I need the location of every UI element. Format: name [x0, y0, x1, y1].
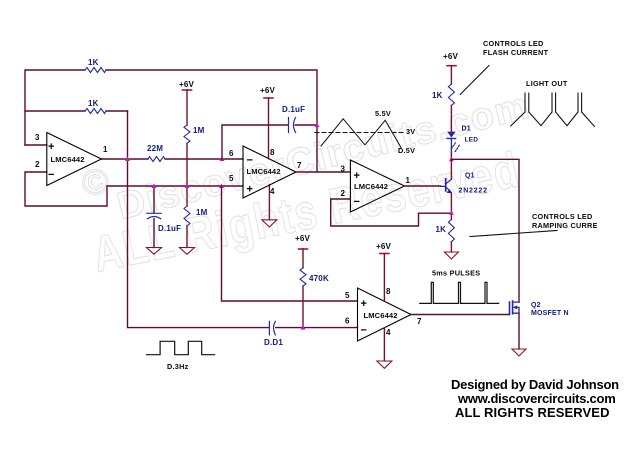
svg-text:4: 4	[270, 187, 275, 196]
resistor R6 1K (LED flash current)	[448, 84, 454, 106]
svg-text:Q1: Q1	[465, 173, 475, 180]
wire 3V ref branch down to U4 pin 5	[222, 186, 358, 301]
wire U2 pin 4 to ground	[268, 185, 270, 220]
svg-text:6: 6	[345, 317, 350, 326]
svg-text:1K: 1K	[88, 99, 99, 108]
wire U2 output to U3 pin 3	[296, 171, 350, 173]
svg-text:LMC6442: LMC6442	[364, 311, 398, 320]
leader line flash	[460, 66, 489, 95]
resistor R2 1K (positive feedback)	[85, 109, 106, 114]
wire C2 integrator feedback	[222, 125, 317, 159]
wire Q1 emitter down to R7	[450, 194, 452, 252]
resistor R7 1K (LED ramping current)	[448, 219, 454, 241]
svg-text:LIGHT OUT: LIGHT OUT	[526, 79, 568, 88]
svg-text:3: 3	[341, 165, 346, 174]
junction ref line / U4 branch	[219, 184, 224, 189]
LED D1	[447, 132, 456, 138]
wire Q2 source to ground	[518, 313, 520, 349]
wire U1 output vertical down to C3 line (0.3Hz square node)	[128, 111, 270, 328]
ground for R5	[180, 248, 195, 255]
svg-text:−: −	[361, 325, 367, 337]
svg-text:1: 1	[103, 145, 108, 154]
ground U2 pin 4	[262, 220, 277, 227]
svg-text:1K: 1K	[432, 91, 443, 100]
wire Q1 collector	[450, 159, 452, 179]
svg-text:©: ©	[78, 158, 116, 204]
5ms pulses icon	[420, 282, 499, 303]
junction U1 output node	[125, 157, 130, 162]
svg-text:5: 5	[229, 174, 234, 183]
wire from node A to R2 and down to U1 output node	[25, 110, 128, 112]
svg-text:LMC6442: LMC6442	[51, 155, 85, 164]
svg-text:D.1uF: D.1uF	[282, 105, 305, 114]
ground for Q2 source	[512, 349, 526, 356]
wire 3V reference line to U2 pin 5	[107, 185, 243, 187]
svg-text:−: −	[48, 169, 54, 181]
svg-text:1K: 1K	[88, 58, 99, 67]
svg-text:+: +	[354, 170, 360, 182]
wire U3 pin 2 feedback from Q1 emitter	[331, 199, 452, 226]
svg-text:7: 7	[297, 161, 302, 170]
op-amp U1 LMC6442	[47, 133, 102, 186]
svg-text:+: +	[247, 184, 253, 196]
resistor R3 22M	[148, 157, 165, 162]
svg-text:CONTROLS LED: CONTROLS LED	[483, 39, 544, 48]
junction R8 / C3 / U4 pin6	[301, 325, 306, 330]
capacitor C2 0.1uF	[289, 118, 296, 133]
leader line ramping	[470, 231, 557, 237]
wire C1 leads	[153, 186, 155, 248]
svg-text:+6V: +6V	[179, 80, 195, 89]
wire U1 pin 2 feedback to 3V reference line	[25, 172, 107, 206]
svg-text:2: 2	[35, 160, 40, 169]
svg-text:LED: LED	[465, 137, 479, 144]
ground U4 pin 4	[377, 361, 392, 368]
capacitor C3 0.01	[269, 321, 275, 335]
svg-text:LMC6442: LMC6442	[247, 167, 281, 176]
resistor R1 1K (top feedback)	[85, 68, 106, 73]
svg-text:1K: 1K	[436, 225, 447, 234]
svg-text:+: +	[48, 141, 54, 153]
svg-text:RAMPING CURRE: RAMPING CURRE	[532, 221, 598, 230]
wire U4 output to Q2 gate	[411, 314, 510, 316]
svg-text:8: 8	[386, 287, 391, 296]
svg-text:www.discovercircuits.com: www.discovercircuits.com	[457, 391, 616, 406]
wire U4 pin 4 to ground	[383, 328, 385, 361]
svg-text:+: +	[361, 298, 367, 310]
svg-text:D.5V: D.5V	[398, 146, 415, 155]
junction ref line / C1	[152, 184, 157, 189]
watermark copyright symbol	[78, 158, 116, 204]
wire U4 pin 8	[383, 254, 385, 302]
svg-text:D1: D1	[462, 126, 471, 133]
svg-text:−: −	[354, 196, 360, 208]
svg-text:+6V: +6V	[295, 234, 311, 243]
resistor R5 1M (lower divider)	[184, 206, 190, 226]
svg-text:1: 1	[406, 176, 411, 185]
op-amp U2 LMC6442	[243, 146, 296, 198]
op-amp U4 LMC6442	[358, 288, 412, 341]
wire collector node to right rail	[451, 159, 519, 302]
svg-text:3: 3	[35, 133, 40, 142]
wire U3 output to Q1 base	[405, 185, 441, 187]
resistor R8 470K	[300, 268, 306, 286]
op-amp U3 LMC6442	[350, 160, 404, 212]
wire U2 pin 8	[268, 98, 270, 159]
wire U1 output to R3 and U2 pin 6	[101, 158, 243, 160]
junction ref line / divider	[185, 184, 190, 189]
svg-text:D.3Hz: D.3Hz	[167, 362, 189, 371]
svg-text:FLASH CURRENT: FLASH CURRENT	[483, 48, 549, 57]
svg-text:7: 7	[417, 317, 422, 326]
svg-text:8: 8	[270, 148, 275, 157]
wire top feedback from U2 output to node A	[25, 70, 317, 172]
svg-text:1M: 1M	[193, 126, 205, 135]
ground for C1	[147, 248, 162, 255]
0.3Hz square wave icon	[147, 341, 215, 354]
ground for R7	[444, 252, 458, 259]
svg-text:6: 6	[229, 149, 234, 158]
svg-text:D.D1: D.D1	[264, 338, 283, 347]
svg-text:5: 5	[345, 291, 350, 300]
watermark line 1	[113, 84, 535, 228]
svg-text:3V: 3V	[406, 127, 415, 136]
svg-text:470K: 470K	[309, 274, 329, 283]
light out waveform icon	[511, 93, 595, 126]
wire C3 to U4 pin 6	[276, 327, 358, 329]
svg-text:+6V: +6V	[443, 52, 459, 61]
wire +6V to R6 to LED	[450, 66, 452, 131]
junction emitter / feedback	[449, 210, 454, 215]
wire +6V to R8 to C3 node	[302, 249, 304, 328]
svg-text:ALL RIGHTS RESERVED: ALL RIGHTS RESERVED	[455, 405, 610, 420]
svg-text:D.1uF: D.1uF	[158, 224, 181, 233]
svg-text:4: 4	[386, 328, 391, 337]
svg-text:−: −	[247, 155, 253, 167]
MOSFET Q2	[509, 302, 511, 315]
svg-text:2: 2	[341, 189, 346, 198]
transistor Q1 2N2222	[445, 179, 447, 191]
junction LED / Q1 collector / drain line	[449, 157, 454, 162]
junction U2 pin6 / C2	[220, 157, 225, 162]
svg-text:+6V: +6V	[260, 86, 276, 95]
junction C2 / U2 output branch	[315, 123, 320, 128]
svg-text:2N2222: 2N2222	[459, 188, 488, 195]
triangle waveform icon	[315, 132, 404, 134]
svg-text:Q2: Q2	[531, 302, 541, 309]
wire node A to U1 pin 3	[25, 144, 47, 146]
wire divider chain	[186, 90, 188, 248]
wire LED cathode to collector node	[450, 139, 452, 153]
svg-text:MOSFET N: MOSFET N	[531, 310, 569, 317]
svg-text:CONTROLS LED: CONTROLS LED	[532, 212, 593, 221]
svg-text:LMC6442: LMC6442	[354, 182, 388, 191]
watermark line 2	[88, 141, 525, 283]
svg-text:1M: 1M	[196, 208, 208, 217]
capacitor C1 0.1uF	[147, 213, 161, 219]
resistor R4 1M (upper divider)	[184, 125, 190, 143]
svg-text:Designed by David Johnson: Designed by David Johnson	[451, 377, 619, 392]
svg-text:5.5V: 5.5V	[375, 109, 391, 118]
svg-text:+6V: +6V	[376, 242, 392, 251]
svg-text:5ms PULSES: 5ms PULSES	[432, 269, 480, 278]
svg-text:22M: 22M	[147, 144, 163, 153]
